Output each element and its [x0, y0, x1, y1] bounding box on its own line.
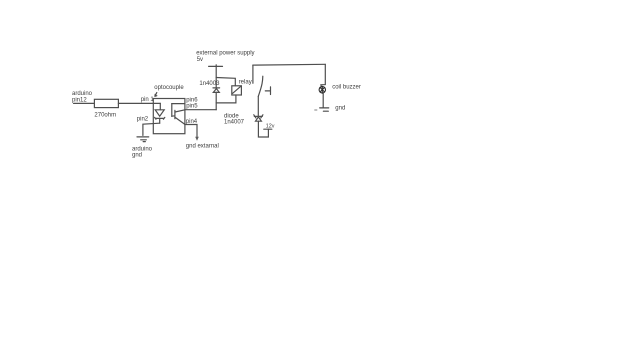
svg-text:optocouple: optocouple — [154, 85, 184, 91]
svg-text:pin6: pin6 — [186, 97, 198, 103]
diode D2 1n4003 cathode bar — [213, 87, 220, 89]
svg-text:gnd: gnd — [132, 152, 142, 158]
wire 5v rail down to diode — [215, 65, 217, 88]
svg-text:12v: 12v — [266, 124, 275, 130]
switch S1 moving arm — [258, 76, 263, 96]
power supply 12v bar — [264, 128, 272, 130]
relay K1 coil diagonal — [233, 87, 241, 94]
transistor Q1 emitter — [175, 117, 185, 124]
svg-text:pin5: pin5 — [186, 104, 198, 110]
power supply 5v rail bar — [209, 65, 223, 67]
wire pin5 collector to relay node — [185, 109, 216, 111]
wire diode down to 12v loop — [258, 121, 268, 137]
wire switch to diode — [257, 96, 259, 116]
ground arduino gnd — [137, 137, 149, 142]
svg-text:external power supply: external power supply — [196, 51, 254, 57]
LED D1 cathode bar — [155, 117, 165, 119]
resistor R1 270ohm — [94, 99, 118, 107]
svg-text:gnd extarnal: gnd extarnal — [186, 144, 219, 150]
node arduino gnd label — [132, 146, 153, 158]
svg-text:coil buzzer: coil buzzer — [332, 85, 361, 91]
diode D2 1n4003 triangle — [213, 89, 219, 93]
node external power supply label — [196, 51, 254, 63]
wire pin4 emitter to gnd external — [185, 125, 197, 140]
svg-text:pin 1: pin 1 — [141, 97, 155, 103]
minus mark near ground — [315, 109, 317, 111]
transistor Q1 base lead down — [171, 104, 173, 117]
svg-text:270ohm: 270ohm — [94, 113, 116, 119]
wire pin12 to resistor — [74, 102, 95, 104]
wire buzzer to ground — [322, 93, 324, 108]
wire relay top branch — [216, 78, 235, 86]
optocoupler U1 body — [153, 99, 185, 134]
svg-text:diode: diode — [224, 113, 239, 119]
transistor Q1 base bar — [172, 110, 175, 118]
wire top-left down to switch — [252, 65, 254, 83]
transistor Q1 base wire to pin6 — [172, 103, 185, 105]
wire top-right down to buzzer — [321, 64, 325, 87]
diode D3 ticks — [254, 115, 263, 118]
wire switch loop top — [253, 63, 325, 66]
diode D3 cathode bar — [254, 115, 262, 117]
wire relay bottom branch — [216, 95, 236, 103]
wire LED cathode to pin2 — [143, 123, 160, 135]
svg-text:1n4003: 1n4003 — [199, 81, 220, 87]
svg-text:5v: 5v — [197, 57, 203, 63]
node arduino pin12 label — [72, 91, 93, 103]
diode D3 triangle — [256, 117, 262, 121]
arrowhead gnd external — [195, 137, 199, 141]
transistor Q1 collector — [175, 110, 185, 112]
svg-text:gnd: gnd — [335, 106, 345, 112]
svg-text:pin12: pin12 — [72, 97, 87, 103]
wire diode to pin5 node — [215, 92, 217, 109]
buzzer BZ1 coil buzzer — [319, 86, 325, 93]
switch S1 fixed contact — [265, 87, 270, 95]
LED D1 anode wire — [159, 103, 161, 109]
relay K1 coil box — [232, 86, 242, 95]
value label diode 1n4007 — [224, 113, 245, 125]
svg-text:relay: relay — [239, 79, 252, 85]
LED D1 cathode wire — [159, 118, 161, 123]
LED D1 triangle — [155, 110, 164, 116]
arrow from optocouple label to box — [155, 93, 157, 97]
wire resistor to optocoupler pin1 — [118, 102, 160, 104]
ground buzzer gnd — [320, 108, 329, 111]
svg-text:pin2: pin2 — [137, 116, 149, 122]
svg-text:arduino: arduino — [72, 91, 93, 97]
svg-text:1n4007: 1n4007 — [224, 120, 245, 126]
